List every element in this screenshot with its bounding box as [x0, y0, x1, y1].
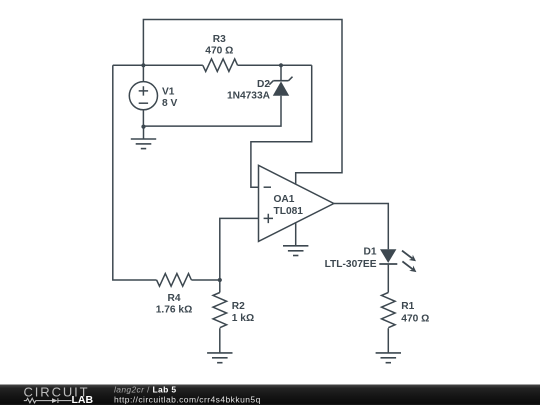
- svg-text:OA1: OA1: [274, 194, 295, 205]
- wire left rail down to R4: [113, 65, 157, 280]
- svg-text:R2: R2: [232, 301, 245, 312]
- wire main horizontal right segment: [238, 64, 312, 66]
- wire non-inverting input to divider: [220, 218, 259, 280]
- svg-text:D2: D2: [257, 79, 270, 90]
- svg-text:V1: V1: [162, 87, 175, 98]
- footer caption: [114, 385, 261, 405]
- svg-text:470 Ω: 470 Ω: [401, 313, 429, 324]
- resistor R1 470: [382, 293, 430, 353]
- svg-text:8 V: 8 V: [162, 98, 177, 109]
- svg-text:1N4733A: 1N4733A: [227, 91, 271, 102]
- svg-text:http://circuitlab.com/crr4s4bk: http://circuitlab.com/crr4s4bkkun5q: [114, 394, 261, 404]
- node A junction V1+/R3: [141, 63, 145, 67]
- wire LED to R1: [387, 264, 389, 293]
- svg-text:1.76 kΩ: 1.76 kΩ: [156, 305, 193, 316]
- wire feedback to op-amp inverting input: [251, 65, 312, 187]
- op-amp OA1 TL081: [259, 165, 334, 246]
- ground R1: [376, 353, 401, 363]
- voltage source V1 8V: [129, 65, 177, 126]
- node B junction R3/D2: [279, 63, 283, 67]
- svg-text:TL081: TL081: [274, 206, 304, 217]
- ground R2: [207, 353, 232, 363]
- svg-text:D1: D1: [363, 247, 376, 258]
- svg-text:R3: R3: [213, 34, 226, 45]
- resistor R2 1k: [213, 280, 254, 353]
- wire main horizontal left segment: [113, 64, 203, 66]
- svg-text:LTL-307EE: LTL-307EE: [325, 259, 377, 270]
- svg-text:LAB: LAB: [72, 394, 94, 405]
- resistor R4 1.76k: [156, 274, 193, 316]
- wire R4 to node D: [191, 279, 219, 281]
- node C junction V1-/ground: [141, 125, 145, 129]
- LED D1 LTL-307EE: [325, 247, 417, 273]
- wire top rail V1+ to op-amp V+: [143, 20, 342, 185]
- svg-text:R1: R1: [401, 301, 414, 312]
- svg-text:470 Ω: 470 Ω: [205, 45, 233, 56]
- svg-text:R4: R4: [167, 293, 180, 304]
- node D junction R4/R2/op-amp+: [218, 278, 222, 282]
- zener diode D2 1N4733A: [144, 65, 293, 126]
- wire op-amp output to LED: [334, 204, 389, 250]
- ground V1: [131, 127, 156, 149]
- svg-text:1 kΩ: 1 kΩ: [232, 313, 254, 324]
- ground op-amp V-: [283, 246, 308, 256]
- footer bar: [0, 385, 540, 405]
- resistor R3: [203, 34, 238, 72]
- svg-text:lang2cr / Lab 5: lang2cr / Lab 5: [114, 385, 176, 395]
- CircuitLab logo: [24, 384, 94, 405]
